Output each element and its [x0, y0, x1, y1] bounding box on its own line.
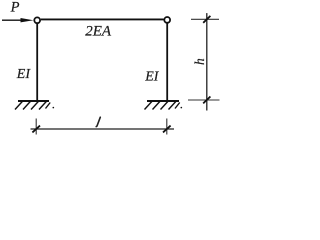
svg-text:P: P: [10, 0, 20, 16]
svg-text:EI: EI: [16, 67, 32, 82]
svg-text:h: h: [192, 58, 207, 65]
svg-text:2EA: 2EA: [85, 23, 112, 39]
svg-text:EI: EI: [144, 69, 160, 84]
